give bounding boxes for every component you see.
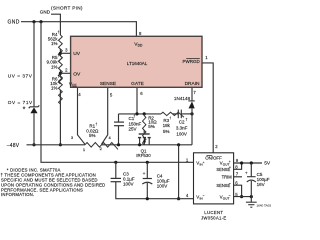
svg-text:5V: 5V <box>264 161 271 167</box>
zener diode D1 SMAT70A cathode bar <box>29 105 40 108</box>
wire C3 bottom and VIN- rail <box>116 182 194 199</box>
junction SENSE- at VOUT- wire <box>240 195 243 198</box>
wire SENSE pin 5 to R1 <box>102 87 108 144</box>
junction R2 tap <box>143 112 146 115</box>
junction VIN- drop at bus <box>177 143 180 146</box>
svg-text:+: + <box>229 160 231 164</box>
wire to ground symbol <box>250 197 252 203</box>
resistor R3 <box>161 112 184 117</box>
svg-text:5%: 5% <box>89 133 96 138</box>
wire GND bus to VDD pin 8 <box>21 22 136 37</box>
wire C1 bottom to -48V bus <box>118 126 120 145</box>
wire SENSE- loop to VOUT- <box>234 185 242 196</box>
svg-text:IRF530: IRF530 <box>136 153 151 158</box>
wire short-pin GND to resistor divider <box>51 14 60 35</box>
junction zener at -48V bus <box>32 143 35 146</box>
svg-text:25V: 25V <box>129 127 137 132</box>
svg-text:+: + <box>143 172 146 177</box>
wire GND to module VIN+ rail <box>41 22 194 163</box>
svg-text:−: − <box>229 194 231 198</box>
svg-text:†: † <box>134 114 136 118</box>
junction C4 at VIN+ rail <box>146 161 149 164</box>
capacitor C1 plates <box>114 121 124 123</box>
svg-text:†: † <box>58 30 60 34</box>
svg-text:GND: GND <box>40 9 51 14</box>
capacitor C2 plates <box>177 110 179 119</box>
transistor Q1 channel segments <box>138 137 141 139</box>
junction C1 at bus <box>117 143 120 146</box>
svg-text:OV = 71V: OV = 71V <box>8 100 33 105</box>
svg-text:1N4148: 1N4148 <box>174 96 191 101</box>
junction C3 at VIN+ rail <box>114 161 117 164</box>
svg-text:100V: 100V <box>157 184 168 189</box>
svg-text:SENSE: SENSE <box>100 81 116 87</box>
junction VIN- drop at rail <box>177 197 180 200</box>
power module U2 body <box>194 153 234 204</box>
wire C5 bottom <box>250 181 252 197</box>
junction C2-diode node <box>190 112 193 115</box>
svg-text:1640 TA03: 1640 TA03 <box>257 204 272 208</box>
ground <box>246 201 257 203</box>
svg-text:OV: OV <box>73 72 81 78</box>
junction R6 at -48V bus <box>59 143 62 146</box>
junction on GND bus (VIN+ feed) <box>39 20 42 23</box>
svg-text:−: − <box>229 182 231 186</box>
wire diode anode to -48V bus <box>191 108 193 144</box>
wire gate horizontal run <box>119 113 162 115</box>
svg-text:+: + <box>203 160 205 164</box>
svg-text:†: † <box>186 118 188 122</box>
svg-text:DD: DD <box>138 43 143 47</box>
wire GATE pin 6 down <box>136 87 138 114</box>
svg-text:INFORMATION.: INFORMATION. <box>1 192 34 197</box>
wire VOUT- to ground <box>234 196 252 198</box>
resistor R6 <box>59 76 63 104</box>
wire C2 to diode node <box>181 113 192 115</box>
svg-text:†: † <box>95 122 97 126</box>
svg-text:1%: 1% <box>51 64 58 69</box>
svg-text:LT1640AL: LT1640AL <box>127 61 148 66</box>
wire R5-R6 node <box>59 70 61 76</box>
op-amp U1 LT1640AL body <box>71 36 202 87</box>
svg-text:†: † <box>169 116 171 120</box>
wire VEE pin 4 to R1 <box>78 87 86 144</box>
junction node OV <box>59 72 62 75</box>
diode 1N4148 cathode bar <box>188 100 194 102</box>
svg-text:DRAIN: DRAIN <box>185 81 200 87</box>
wire C5 top <box>250 163 252 176</box>
wire R6 to -48V bus <box>59 90 61 145</box>
wire VOUT+ to 5V <box>234 162 262 164</box>
svg-text:*: * <box>23 106 26 113</box>
svg-text:1%: 1% <box>51 86 58 91</box>
svg-text:5%: 5% <box>163 129 170 134</box>
wire SENSE+ loop to VOUT+ <box>234 163 242 169</box>
resistor R4 <box>59 35 63 63</box>
junction Q1 source at bus <box>138 143 141 146</box>
svg-text:150nF: 150nF <box>129 121 142 126</box>
wire R4-R5 node <box>59 49 61 56</box>
transistor Q1 body arrow <box>143 138 146 142</box>
svg-text:UV: UV <box>73 51 81 57</box>
junction SENSE+ at VOUT+ wire <box>240 161 243 164</box>
wire -48V bus left of R1 <box>27 144 86 146</box>
wire C1 top <box>118 114 120 122</box>
wire R3 to C2 <box>173 113 179 115</box>
wire zener branch from GND bus <box>33 22 35 107</box>
svg-text:18k: 18k <box>163 123 171 128</box>
wire zener anode to -48V bus <box>33 113 35 145</box>
svg-text:GATE: GATE <box>131 81 144 87</box>
svg-text:TRIM: TRIM <box>222 175 233 180</box>
svg-text:GND: GND <box>8 20 20 26</box>
wire -48V bus right of R1 <box>102 144 193 146</box>
junction pin6-gate run <box>135 112 138 115</box>
wire PWRGD pin1 to module ON/OFF <box>202 63 213 153</box>
junction C4 at VIN- rail <box>146 197 149 200</box>
svg-text:†: † <box>58 74 60 78</box>
junction C5 top <box>250 161 253 164</box>
svg-text:PWRGD: PWRGD <box>183 59 201 64</box>
wire DRAIN pin 7 down <box>191 87 193 101</box>
zener diode D1 body <box>30 107 37 113</box>
svg-text:5%: 5% <box>148 124 155 129</box>
wire C3 top <box>115 162 117 178</box>
svg-text:(SHORT PIN): (SHORT PIN) <box>51 5 83 10</box>
wire UV pin 3 stub <box>60 52 70 54</box>
transistor Q1 gate bar <box>139 133 150 135</box>
svg-text:–48V: –48V <box>7 143 20 149</box>
capacitor C5 plates <box>247 176 256 178</box>
diode 1N4148 body <box>189 101 195 108</box>
svg-text:1%: 1% <box>51 41 58 46</box>
svg-text:†: † <box>58 53 60 57</box>
svg-text:JW050A1-E: JW050A1-E <box>201 216 227 221</box>
svg-text:100V: 100V <box>123 181 134 186</box>
resistor R1 sense 0.02ohm <box>85 143 118 150</box>
junction node UV <box>59 52 62 55</box>
wire C4 bottom <box>146 183 148 199</box>
svg-text:UV = 37V: UV = 37V <box>8 74 33 79</box>
svg-text:−: − <box>203 194 205 198</box>
resistor R5 <box>59 56 63 84</box>
capacitor C3 plates <box>111 177 121 179</box>
svg-text:+: + <box>245 172 248 177</box>
capacitor C4 plates <box>143 178 152 180</box>
svg-text:LUCENT: LUCENT <box>204 210 223 215</box>
svg-text:C2: C2 <box>179 120 185 125</box>
wire OV pin 2 stub <box>60 72 70 74</box>
svg-text:100V: 100V <box>176 131 187 136</box>
svg-text:16V: 16V <box>257 182 265 187</box>
junction C5 bottom <box>250 195 253 198</box>
wire C4 top <box>146 162 148 178</box>
wire R2 leads <box>143 114 145 116</box>
svg-text:+: + <box>229 166 231 170</box>
transistor Q1 leads <box>139 138 141 145</box>
wire -48V bus to VIN- rail <box>178 145 180 199</box>
wire TRIM stub <box>234 176 242 178</box>
junction on GND bus (zener) <box>32 20 35 23</box>
svg-text:3.3nF: 3.3nF <box>176 126 188 131</box>
resistor R2 <box>143 116 146 145</box>
